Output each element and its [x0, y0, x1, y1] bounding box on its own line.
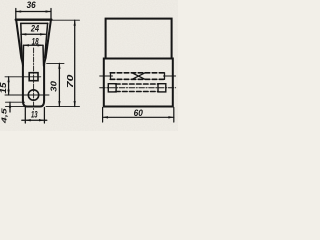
- stem left edge: [22, 64, 24, 101]
- extension line for 70 (top): [52, 19, 80, 21]
- top edge: [16, 19, 52, 21]
- square cross hole: [29, 73, 38, 81]
- horizontal centerline of square hole / ext for 15: [5, 76, 41, 78]
- dimension 4,5: [0, 102, 27, 124]
- inner cavity line left (24): [21, 23, 22, 58]
- svg-text:4,5: 4,5: [0, 107, 8, 125]
- svg-text:13: 13: [31, 109, 38, 119]
- inner cavity line right (18): [42, 45, 45, 66]
- right outer slant edge: [44, 20, 51, 65]
- svg-text:36: 36: [27, 0, 37, 10]
- svg-text:30: 30: [50, 80, 59, 91]
- svg-text:15: 15: [0, 82, 8, 94]
- dimension 70: [65, 20, 76, 106]
- horizontal centerline of round hole / ext for 15: [5, 94, 49, 96]
- part outline: holder body front view: [16, 20, 52, 107]
- svg-text:24: 24: [30, 24, 39, 34]
- extension line for 30 (shoulder): [47, 62, 64, 64]
- right counterbore cap: [158, 84, 166, 92]
- vertical centerline of stem: [33, 48, 35, 111]
- stem right edge: [43, 64, 45, 101]
- inner cavity line right (24): [45, 23, 48, 58]
- dimension 24: [21, 24, 46, 36]
- dimension 30: [50, 63, 61, 106]
- left counterbore cap: [108, 84, 116, 92]
- round hole centerline: [100, 87, 176, 89]
- round hole: [28, 90, 38, 100]
- dimension 13: [22, 108, 47, 124]
- inner cavity line left (18): [22, 45, 24, 66]
- dimension 15: [0, 77, 10, 95]
- bottom rounded end: [23, 101, 44, 107]
- dimension 36: [16, 0, 51, 20]
- left outer slant edge: [16, 20, 23, 65]
- svg-text:70: 70: [65, 74, 75, 88]
- hidden square hole band (dashed) top line: [110, 72, 165, 74]
- svg-text:18: 18: [32, 36, 40, 46]
- bottom extension line for 30 and 70: [46, 106, 80, 108]
- side view upper block: [106, 19, 172, 59]
- cavity top lip: [21, 22, 48, 24]
- square hole diagonals (bowtie): [132, 73, 145, 80]
- dimension 18: [24, 36, 44, 46]
- square hole band end ticks: [110, 73, 112, 80]
- hidden round hole band (dashed) top line: [116, 83, 159, 85]
- hidden round hole band (dashed) bottom line: [116, 91, 159, 93]
- square hole centerline stubs: [100, 75, 113, 77]
- hidden square hole band (dashed) bottom line: [110, 78, 165, 80]
- side view lower block: [104, 59, 173, 107]
- dimension 60: [103, 108, 174, 123]
- svg-text:60: 60: [134, 108, 144, 119]
